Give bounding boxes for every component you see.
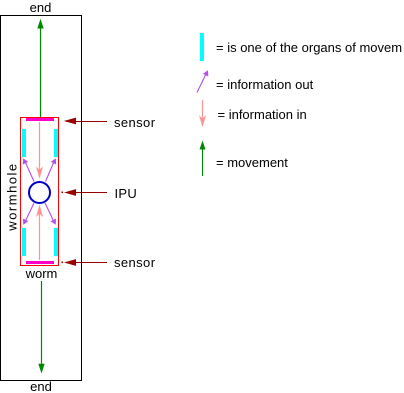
movement arrow bottom (38, 281, 44, 374)
IPU circle (28, 181, 51, 204)
legend text: information out (216, 78, 313, 91)
sensor pointer arrow bottom (62, 259, 108, 266)
information-out arrow up-right (46, 158, 57, 181)
label sensor (bottom) (114, 256, 155, 269)
worm box (20, 117, 59, 266)
legend text: information in (218, 108, 307, 121)
organ bar bottom-left (22, 228, 26, 256)
sensor bar bottom (26, 261, 54, 264)
information-in arrow bottom (36, 205, 43, 260)
label end (top) (20, 1, 61, 14)
sensor pointer arrow top (64, 118, 107, 125)
legend text: movement (216, 156, 288, 169)
IPU pointer arrow (62, 189, 108, 196)
legend information-out arrow (197, 70, 208, 92)
wormhole body rectangle (0, 15, 82, 381)
sensor bar top (26, 118, 54, 121)
label IPU (115, 187, 138, 200)
legend information-in arrow (199, 100, 206, 127)
label wormhole (rotated) (5, 161, 18, 231)
organ bar top-right (54, 129, 58, 157)
legend movement arrow (200, 141, 206, 177)
information-out arrow down-left (23, 203, 34, 225)
organ bar bottom-right (54, 228, 58, 256)
movement arrow top (37, 19, 43, 117)
organ bar top-left (22, 129, 26, 157)
information-out arrow down-right (45, 203, 56, 225)
information-out arrow up-left (23, 158, 34, 181)
label end (bottom) (20, 380, 62, 393)
information-in arrow top (36, 122, 43, 179)
label worm (22, 267, 61, 280)
legend organ bar (200, 33, 204, 61)
legend text: organs of movement (216, 41, 402, 54)
label sensor (top) (114, 116, 155, 129)
